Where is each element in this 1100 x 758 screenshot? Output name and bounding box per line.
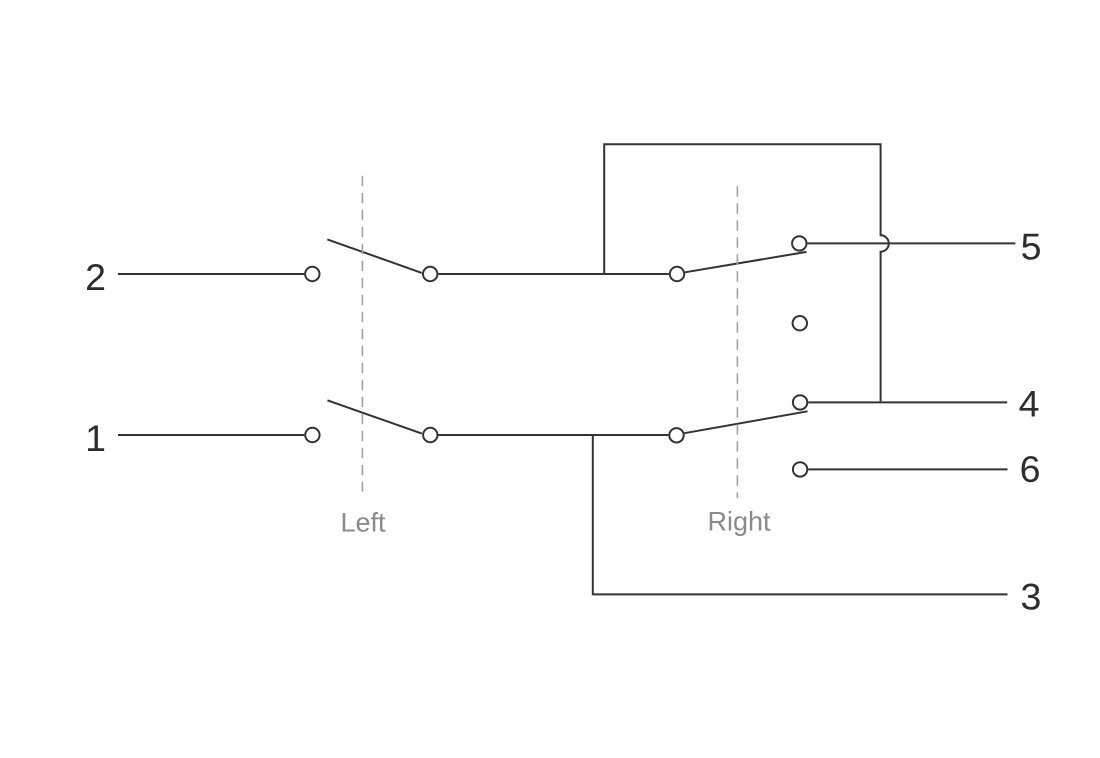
contact circle pole-2 left: [305, 267, 319, 281]
switch lever SW-left pole 1: [327, 400, 421, 433]
wire terminal-4 lead: [808, 401, 1007, 403]
svg-text:Left: Left: [340, 507, 386, 537]
contact circle pole-2 right pivot: [670, 267, 684, 281]
wire terminal-6 lead: [808, 468, 1007, 470]
svg-text:5: 5: [1021, 226, 1042, 268]
contact circle pole-1 pivot: [423, 428, 437, 442]
contact circle pole-2 pivot: [423, 267, 437, 281]
wire node 3 branch: [593, 436, 1008, 594]
contact circle throw 5: [792, 236, 806, 250]
svg-text:2: 2: [85, 256, 106, 298]
dashed axis line Left switch: [361, 176, 363, 492]
svg-text:1: 1: [85, 417, 106, 459]
switch lever SW-left pole 2: [327, 239, 421, 273]
contact circle throw 4: [793, 395, 807, 409]
svg-text:4: 4: [1019, 382, 1040, 424]
wire terminal-1 lead: [118, 434, 304, 436]
svg-text:6: 6: [1020, 448, 1041, 490]
dashed axis line Right switch: [736, 186, 738, 498]
svg-text:Right: Right: [707, 507, 771, 537]
contact circle throw 6: [793, 462, 807, 476]
contact circle unused middle throw: [793, 316, 807, 330]
switch lever SW-right pole 2: [685, 252, 807, 272]
contact circle pole-1 right pivot: [669, 428, 683, 442]
svg-text:3: 3: [1020, 576, 1041, 618]
contact circle pole-1 left: [305, 428, 319, 442]
wire pole-2 common: [438, 273, 668, 275]
wire terminal-2 lead: [118, 273, 304, 275]
wire feedback loop node 5 to pole-2 common (with crossover hop): [604, 144, 889, 401]
wire terminal-5 lead: [808, 242, 1016, 244]
switch lever SW-right pole 1: [684, 411, 807, 433]
wire pole-1 common: [439, 434, 669, 436]
